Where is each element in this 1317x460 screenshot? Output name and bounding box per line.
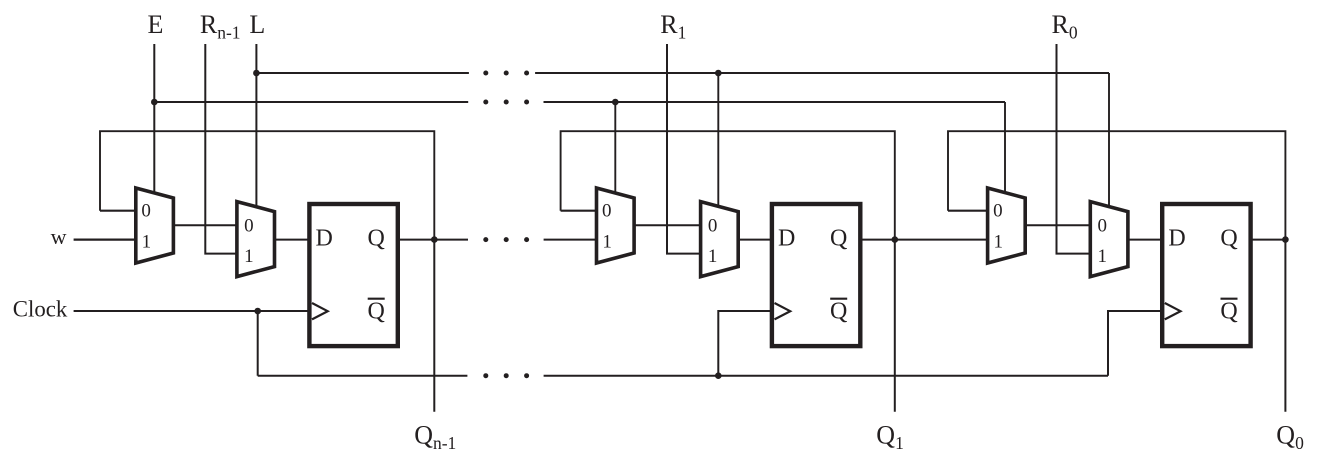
wire: E input vertical from label [153,44,155,196]
junction dot node: L tap stage 1 [715,70,722,77]
svg-text:Q1: Q1 [876,421,904,454]
wire: mux 0-input stub stage n-1 [100,210,138,212]
mux U6: load (L) 2-to-1 mux, stage 0 [1090,202,1128,277]
wire: Clock bus (y=376) [258,311,1108,376]
wire: shift chain Q1 to stage-0 mux [895,239,990,241]
wire: feedback loop stage 1 (Q back to mux 0 input) [561,131,895,239]
svg-text:0: 0 [141,201,151,222]
junction dot node: clock tap stage 1 [715,372,722,379]
svg-text:1: 1 [602,232,612,253]
wire: clock riser into FF1 [718,311,771,376]
svg-text:R0: R0 [1052,10,1078,43]
junction dot node Qn-1 [431,236,438,243]
flip-flop FF1 (D flip-flop, stage n-1) [309,204,397,346]
svg-text:1: 1 [1098,246,1108,267]
svg-text:D: D [778,226,795,252]
wire: Q0 output drop to label [1284,240,1286,412]
junction dot node: clock tap stage n-1 [254,308,261,315]
svg-text:0: 0 [1098,216,1108,237]
wire: FF Q output stage 0 [1251,239,1286,241]
ellipsis dots on L line [483,71,529,76]
svg-text:Qn-1: Qn-1 [414,421,456,454]
svg-text:D: D [316,226,333,252]
svg-text:L: L [249,10,265,39]
ellipsis dots on clock bus [483,373,529,378]
junction dot node: E tap stage n-1 [151,99,158,106]
wire: Q1 output drop to label [894,240,896,412]
svg-text:1: 1 [244,246,254,267]
wire: L input vertical from label [255,44,257,209]
svg-text:0: 0 [602,201,612,222]
wire: Clock input line [74,310,310,312]
wire: E drop to stage-0 mux select [1004,102,1006,196]
svg-text:Q0: Q0 [1276,421,1304,454]
wire: E drop to stage-1 enable-mux select [614,102,616,196]
ellipsis dots on E line [483,100,529,105]
svg-text:0: 0 [993,201,1003,222]
svg-text:0: 0 [708,216,718,237]
wire: shift chain Qn-1 to stage-1 mux [434,239,598,241]
mux U1: enable (E) 2-to-1 mux, stage n-1 [136,188,174,263]
mux U5: enable (E) 2-to-1 mux, stage 0 [988,188,1026,263]
flip-flop FF3 (D flip-flop, stage 0) [1162,204,1250,346]
wire: clock riser into FF0 [1108,311,1160,376]
wire: L drop to stage-0 mux select [1108,73,1110,208]
wire: load-mux output to FF D input stage 0 [1126,239,1162,241]
svg-text:w: w [51,224,67,249]
ellipsis dots on shift chain [483,237,529,242]
svg-text:Q: Q [368,226,385,252]
wire: L drop to stage-1 load-mux select [717,73,719,209]
svg-text:Q: Q [830,226,847,252]
wire: load-mux output to FF D input stage 1 [736,239,772,241]
wire: L distribution line (y=73) [256,72,1109,74]
junction dot node: L tap stage n-1 [253,70,260,77]
wire: R1 vertical and elbow into load mux 1-input [667,44,703,254]
mux U2: load (L) 2-to-1 mux, stage n-1 [237,202,275,277]
svg-text:Rn-1: Rn-1 [200,10,241,43]
wire: mux 0-input stub stage 0 [948,210,990,212]
svg-text:Q: Q [1220,298,1237,324]
svg-text:Q: Q [368,298,385,324]
wire: enable-mux output to load-mux 0-input stage n-1 [171,224,239,226]
wire: FF Q output stage n-1 [398,239,434,241]
wire: load-mux output to FF D input stage n-1 [273,239,310,241]
junction dot node Q0 [1282,236,1289,243]
wire: feedback loop stage 0 (Q back to mux 0 input) [948,131,1285,239]
wire: enable-mux output to load-mux 0-input stage 1 [632,224,703,226]
svg-text:1: 1 [993,232,1003,253]
wire: feedback loop stage n-1 (Q back to mux 0 input) [100,131,434,239]
junction dot node: E tap stage 1 [612,99,619,106]
svg-text:1: 1 [708,246,718,267]
wire: Qn-1 output drop to label [433,240,435,412]
svg-text:1: 1 [142,232,152,253]
wire: w input into enable mux [74,239,138,241]
svg-text:Q: Q [1220,226,1237,252]
svg-text:Q: Q [830,298,847,324]
junction dot node Q1 [892,236,899,243]
svg-text:D: D [1168,226,1185,252]
wire: Rn-1 vertical and elbow into load mux 1-input [205,44,239,254]
wire: enable-mux output to load-mux 0-input stage 0 [1023,224,1092,226]
wire: FF Q output stage 1 [861,239,895,241]
flip-flop FF2 (D flip-flop, stage 1) [772,204,860,346]
svg-text:E: E [147,10,163,39]
svg-text:Clock: Clock [13,297,68,322]
svg-text:R1: R1 [660,10,686,43]
mux U4: load (L) 2-to-1 mux, stage 1 [701,202,739,277]
wire: E distribution line (y=102) [154,101,1005,103]
wire: mux 0-input stub stage 1 [561,210,599,212]
mux U3: enable (E) 2-to-1 mux, stage 1 [597,188,635,263]
wire: R0 vertical and elbow into load mux 1-input [1057,44,1093,254]
svg-text:0: 0 [244,216,254,237]
